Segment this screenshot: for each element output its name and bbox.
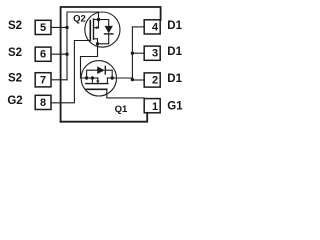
node pin3 junction	[131, 52, 134, 55]
pin 1 box	[144, 99, 160, 113]
pin 8 box	[35, 95, 51, 109]
svg-text:Q1: Q1	[115, 104, 128, 115]
Q1 drain tick	[106, 78, 108, 84]
svg-text:S2: S2	[8, 73, 22, 85]
node pin6 junction	[65, 53, 68, 56]
svg-text:G2: G2	[7, 95, 22, 107]
node Q1 source tick junction	[91, 76, 94, 79]
Q1 channel bar	[86, 83, 108, 85]
wire D1 bus to pin4	[132, 26, 144, 28]
svg-text:D1: D1	[167, 73, 182, 85]
svg-text:3: 3	[152, 48, 158, 60]
wire pin6 to S2 bus	[51, 53, 67, 55]
svg-text:8: 8	[40, 97, 46, 109]
svg-text:G1: G1	[167, 100, 183, 112]
wire G1 gate of Q1 to pin1	[107, 89, 144, 98]
pin 2 box	[144, 73, 160, 87]
pin 3 box	[144, 46, 160, 60]
node pin2 junction	[131, 78, 134, 81]
svg-text:Q2: Q2	[73, 14, 86, 25]
svg-text:S2: S2	[8, 47, 22, 59]
Q1 body-source link	[87, 77, 98, 79]
transistor Q2	[85, 12, 120, 47]
Q2 body tick with arrow	[94, 27, 99, 29]
pin 4 box	[144, 20, 160, 34]
Q1 circle	[81, 61, 116, 96]
Q2 circle	[85, 12, 120, 47]
svg-text:4: 4	[152, 21, 159, 33]
svg-text:D1: D1	[167, 46, 182, 58]
Q1 gate bar	[86, 88, 106, 90]
Q1 source tick	[91, 78, 93, 84]
svg-text:2: 2	[152, 75, 158, 87]
wire Q2 source entry	[98, 12, 100, 20]
pin 5 box	[35, 20, 51, 34]
Q2 body diode	[99, 20, 109, 26]
wire D1 bus to pin3	[132, 52, 144, 54]
Q2 drain tick	[94, 38, 98, 40]
svg-text:D1: D1	[167, 20, 182, 32]
wire D1 bus to pin2	[132, 79, 144, 81]
Q2 source tick	[94, 19, 99, 21]
wire G2 pin8 to gate of Q2	[51, 41, 90, 103]
Q1 drain link	[107, 77, 112, 79]
Q1 body diode	[87, 70, 98, 78]
wire internal S1-D2 link	[81, 44, 98, 78]
S2 bus	[67, 12, 99, 80]
transistor Q1	[81, 61, 116, 96]
node Q2 source junction	[97, 18, 100, 21]
svg-text:6: 6	[40, 49, 46, 61]
Q1 body tick with arrow	[97, 78, 99, 84]
node pin5 junction	[65, 26, 68, 29]
pin 7 box	[35, 73, 51, 87]
wire pin5 to S2 bus	[51, 26, 67, 28]
svg-text:7: 7	[40, 74, 46, 86]
svg-text:S2: S2	[8, 20, 22, 32]
svg-text:5: 5	[40, 22, 46, 34]
node Q1 drain junction	[111, 76, 114, 79]
Q2 channel bar	[93, 19, 95, 39]
node Q2 drain junction	[96, 42, 99, 45]
wire Q1 drain to D1 bus	[112, 78, 132, 79]
pin 6 box	[35, 47, 51, 61]
node Q1 diode-source junction	[85, 76, 88, 79]
svg-text:1: 1	[152, 101, 158, 113]
Q2 body-source link	[98, 20, 100, 28]
Q2 drain link	[97, 39, 99, 44]
wire pin7 to S2 bus	[51, 79, 67, 81]
D1 bus	[131, 27, 133, 80]
package outline	[61, 7, 161, 122]
Q2 gate bar	[89, 21, 91, 41]
